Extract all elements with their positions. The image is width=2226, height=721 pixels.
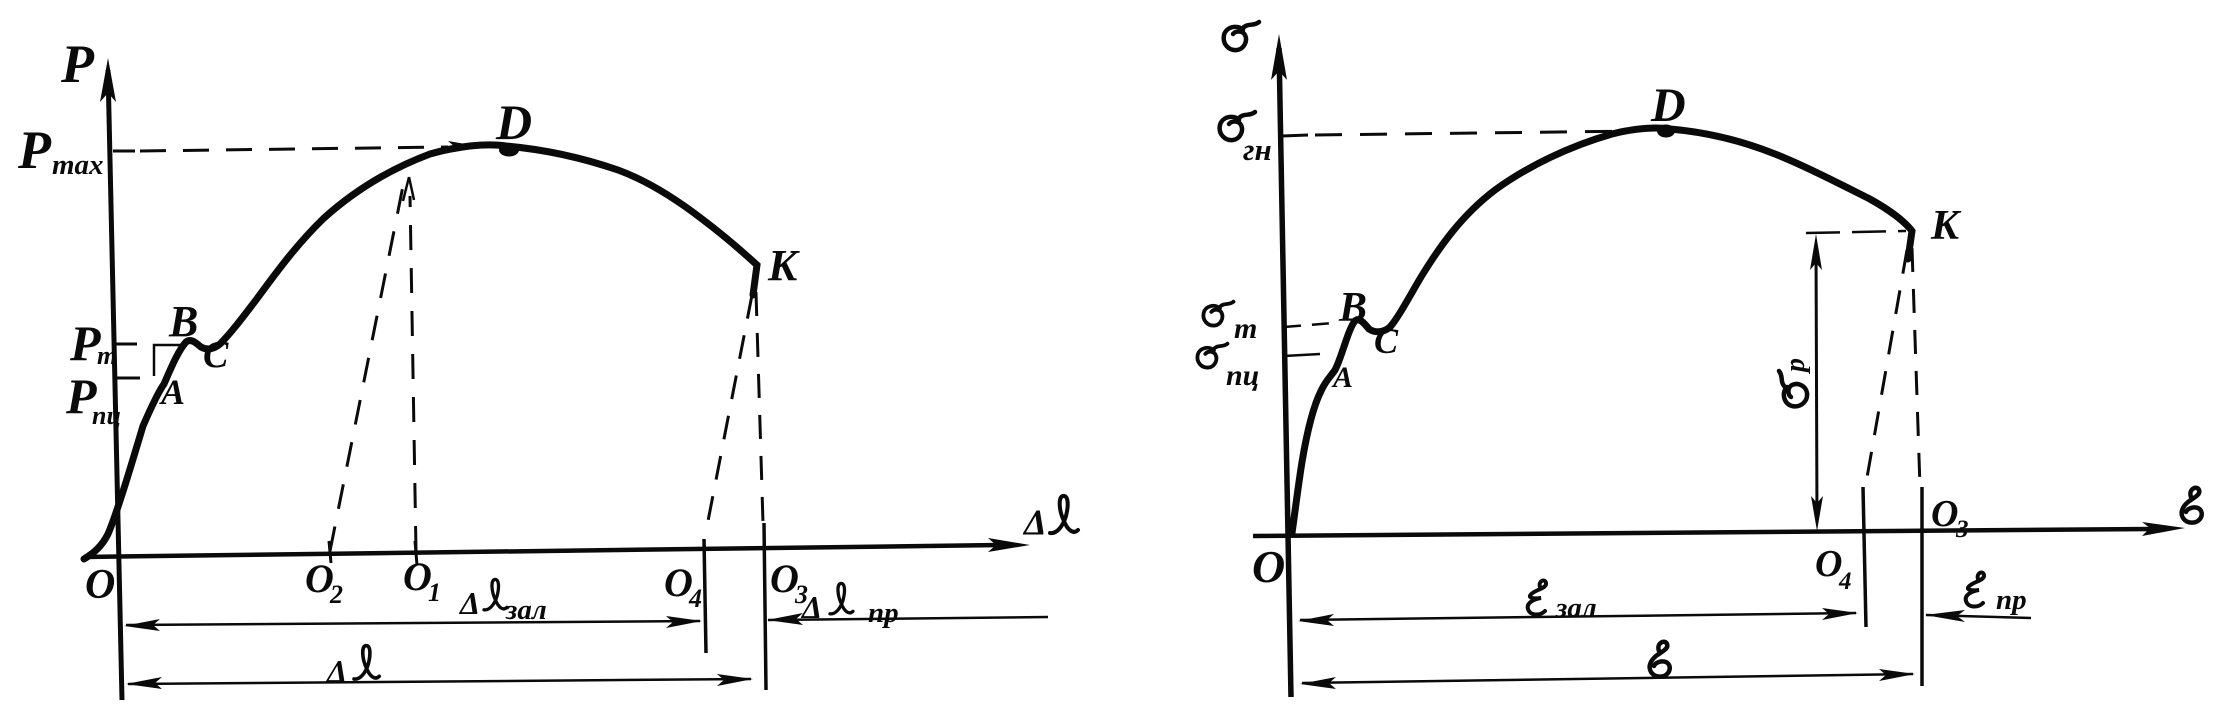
svg-text:пр: пр [868, 597, 899, 629]
dashed K to O4 (right) [1865, 250, 1907, 489]
right y-axis label sigma [1224, 22, 1259, 50]
label eps_pr [1966, 572, 1984, 606]
svg-text:зал: зал [1555, 592, 1597, 624]
point D dot (right) [1657, 125, 1675, 138]
tick P_t [115, 343, 137, 346]
svg-text:O: O [1931, 493, 1958, 535]
svg-text:max: max [52, 149, 104, 181]
sigma_pc level line [1284, 354, 1320, 356]
label sigma_t [1203, 302, 1233, 326]
label sigma_p rotated [1779, 358, 1811, 406]
dashed K to O3 (right) [1912, 248, 1920, 487]
svg-text:Δ: Δ [458, 585, 480, 621]
label sigma_pc [1197, 344, 1227, 368]
O2 tick on axis [329, 541, 331, 563]
dashed sigma_gm line to D [1315, 131, 1640, 135]
svg-text:D: D [1650, 79, 1686, 132]
svg-text:Δ: Δ [800, 589, 822, 625]
left x-axis [84, 538, 1030, 557]
svg-text:D: D [495, 94, 532, 150]
svg-text:C: C [1374, 321, 1399, 361]
small corner bracket at yield [154, 345, 183, 376]
O4 solid tick (right) [1863, 487, 1866, 627]
label eps total [1650, 642, 1670, 677]
sigma_p top horizontal line [1806, 231, 1906, 233]
svg-text:3: 3 [1955, 516, 1969, 543]
tick Pmax [113, 150, 135, 153]
svg-text:зал: зал [505, 594, 547, 626]
svg-text:K: K [767, 241, 800, 290]
right main curve [1292, 128, 1912, 533]
tick sigma_gm [1282, 135, 1308, 136]
svg-text:1: 1 [428, 578, 441, 607]
svg-text:Δ: Δ [325, 653, 347, 689]
svg-text:C: C [203, 334, 229, 376]
dim line delta-l_zal [124, 616, 702, 631]
label sigma_gm [1220, 112, 1255, 140]
svg-text:P: P [60, 34, 95, 94]
svg-text:O: O [85, 562, 115, 608]
O4 solid tick (left) [704, 539, 706, 653]
svg-text:P: P [17, 120, 52, 180]
right x-axis label epsilon [2182, 488, 2202, 523]
right x-axis [1253, 522, 2185, 536]
dashed sigma_t level [1284, 323, 1334, 327]
arrowhead on Pmax dashed line [448, 141, 483, 153]
svg-text:B: B [168, 297, 198, 346]
tick P_pc [115, 377, 140, 380]
svg-text:гн: гн [1243, 132, 1272, 167]
svg-text:K: K [1930, 203, 1962, 249]
svg-text:O: O [1252, 541, 1285, 592]
svg-text:пц: пц [1226, 359, 1259, 392]
label eps_zal [1528, 580, 1546, 614]
right y-axis [1271, 34, 1291, 697]
dashed vertical line to O1 with up arrow [410, 196, 416, 551]
svg-text:р: р [1780, 358, 1811, 374]
svg-text:4: 4 [688, 584, 702, 613]
svg-text:пр: пр [1996, 584, 2027, 616]
svg-text:4: 4 [1838, 568, 1852, 595]
dim line eps_pr [1925, 610, 2031, 622]
dim line delta-l_pr [767, 613, 1048, 625]
O3 solid vertical (right) [1920, 487, 1924, 686]
O1 tick on axis [415, 541, 417, 565]
dim line delta-l total [126, 674, 753, 689]
dim line eps_zal [1298, 608, 1858, 626]
O3 solid vertical (left) [764, 523, 766, 690]
svg-text:A: A [159, 372, 185, 412]
left main curve O-A-B-C-D-K [84, 145, 757, 559]
dashed K to O3 (left) [756, 292, 763, 523]
sigma_p double arrow vertical [1810, 234, 1823, 531]
point D dot (left) [499, 144, 519, 157]
svg-text:т: т [97, 341, 117, 370]
svg-text:2: 2 [329, 580, 343, 609]
svg-text:Δ: Δ [1022, 502, 1047, 542]
svg-text:пц: пц [92, 401, 121, 430]
dim line eps total [1300, 669, 1915, 689]
dashed K to O4 (left) [708, 295, 752, 521]
dashed Pmax level line to D [140, 147, 448, 151]
svg-text:A: A [1331, 361, 1353, 394]
left y-axis [100, 58, 122, 700]
dashed unload line to O2 [330, 186, 403, 551]
svg-text:т: т [1234, 312, 1257, 345]
svg-text:B: B [1338, 285, 1367, 331]
